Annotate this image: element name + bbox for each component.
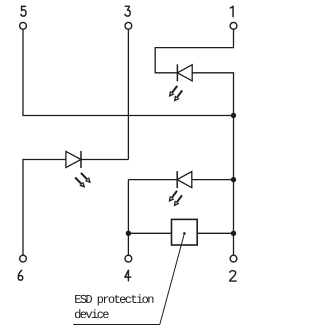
LED D3 triangle pointing left [177, 172, 192, 188]
wire LED D3 cathode to pin 4 column [128, 179, 177, 181]
pin label 3 [125, 6, 130, 16]
wire LED D3 to node N2 [192, 179, 234, 181]
terminal pin 2 [230, 255, 237, 262]
LED D1 triangle pointing left [177, 65, 192, 81]
junction node N2 [231, 177, 236, 182]
ESD protection device box [172, 219, 198, 245]
pin label 5 [21, 6, 26, 16]
pin label 4 [125, 270, 131, 281]
LED D1 emission arrow 2 [177, 91, 183, 98]
circuit schematic: 3 LEDs + ESD protection device, 6 terminals [0, 0, 250, 332]
LED D2 cathode bar [80, 151, 82, 168]
LED D2 triangle pointing right [66, 151, 81, 167]
pin label 2 [230, 271, 236, 281]
caption text: device [75, 309, 109, 318]
junction node N4 [126, 231, 131, 236]
terminal pin 1 [230, 22, 237, 29]
wire pin 6 up and across to LED D2 [23, 160, 66, 255]
terminal pin 6 [20, 255, 27, 262]
leader line from ESD box to caption [160, 233, 185, 324]
terminal pin 5 [20, 22, 27, 29]
wire pin 4 column up to LED D3 [127, 180, 129, 255]
pin label 6 [18, 270, 23, 280]
leader anchor dot inside ESD box [183, 232, 186, 235]
wire ESD device to N3 [197, 232, 233, 234]
wire pin 1 down, left and down to LED D1 [155, 30, 233, 73]
wire LED D2 cathode to pin 3 column [81, 159, 128, 161]
LED D2 emission arrow 2 [75, 178, 82, 185]
LED D1 cathode bar [176, 64, 178, 81]
caption underline [73, 324, 160, 326]
wire N4 to ESD device [128, 232, 171, 234]
junction node N3 [231, 231, 236, 236]
wire pin 5 down and across to node N1 [23, 30, 234, 116]
wire N3 to pin 2 [233, 233, 235, 255]
LED D1 emission arrow 1 [172, 86, 178, 93]
wire pin 3 down to LED D2 cathode wire [127, 30, 129, 160]
terminal pin 3 [125, 22, 132, 29]
caption text: ESD protection [75, 294, 153, 305]
LED D3 emission arrow 2 [177, 195, 183, 202]
LED D3 cathode bar [176, 171, 178, 188]
wire N2 to N3 [233, 180, 235, 234]
pin label 1 [230, 6, 233, 17]
LED D2 emission arrow 1 [81, 173, 88, 180]
wire N1 to N2 [233, 116, 235, 180]
LED D3 emission arrow 1 [172, 191, 178, 198]
terminal pin 4 [125, 255, 132, 262]
wire LED D1 to right column [192, 73, 233, 116]
junction node N1 [231, 113, 236, 118]
